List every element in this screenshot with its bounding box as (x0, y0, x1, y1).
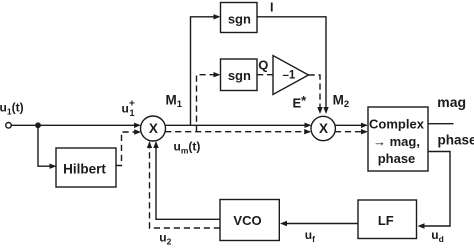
wire Hilbert to M1 dashed (116, 132, 135, 166)
Hilbert block (56, 148, 116, 187)
inverter amplifier -1 (273, 56, 309, 95)
svg-text:M1: M1 (166, 93, 183, 111)
svg-text:u1(t): u1(t) (0, 101, 24, 117)
svg-text:mag: mag (437, 94, 466, 110)
wire LF to VCO (286, 223, 358, 225)
label u1(t) (0, 101, 24, 117)
label u2 (159, 231, 171, 247)
svg-text:sgn: sgn (228, 68, 251, 83)
wire M1 to M2 real (166, 124, 307, 126)
svg-text:Complex: Complex (369, 117, 425, 132)
svg-text:uf: uf (305, 228, 315, 244)
wire tap to sgn1 (191, 17, 215, 126)
label M1 (166, 93, 183, 111)
svg-text:phase: phase (378, 151, 416, 166)
svg-text:LF: LF (378, 213, 394, 228)
svg-text:M2: M2 (333, 93, 350, 111)
sgn block 2 (221, 59, 258, 91)
node junction (35, 122, 41, 128)
input terminal (6, 123, 12, 129)
svg-text:–1: –1 (283, 70, 296, 82)
svg-text:VCO: VCO (233, 213, 261, 228)
label ud (431, 228, 444, 244)
svg-text:I: I (270, 0, 273, 14)
wire tap to sgn2 dashed (197, 75, 215, 132)
wire junction to Hilbert (38, 125, 50, 166)
wire phase output to LF (424, 152, 450, 227)
svg-text:ud: ud (431, 228, 444, 244)
wire M2 to Complex real (335, 124, 362, 126)
wire M2 to Complex imaginary dashed (335, 131, 362, 133)
sgn block 1 (221, 3, 258, 33)
svg-text:sgn: sgn (228, 11, 251, 26)
wire inverter to M2 dashed (309, 75, 321, 108)
wire sgn1 to M2 (257, 17, 326, 108)
svg-text:+: + (129, 99, 135, 110)
Complex block (368, 107, 428, 171)
Complex block label (369, 117, 425, 166)
label u1+ (122, 99, 136, 118)
wire mag output (428, 123, 454, 125)
svg-text:phase: phase (438, 132, 474, 147)
label um(t) (174, 140, 201, 156)
svg-text:E*: E* (293, 93, 308, 110)
VCO block (220, 200, 279, 241)
label uf (305, 228, 315, 244)
svg-text:u: u (122, 102, 129, 116)
svg-text:X: X (149, 121, 158, 136)
wire VCO to M1 imaginary dashed (150, 147, 221, 228)
svg-text:um(t): um(t) (174, 140, 201, 156)
wire VCO to M1 real (156, 147, 220, 219)
wire sgn2 to inverter dashed (257, 74, 273, 76)
wire M1 to M2 imaginary dashed (165, 131, 305, 133)
svg-text:Hilbert: Hilbert (63, 161, 106, 176)
svg-text:→ mag,: → mag, (373, 134, 420, 149)
svg-text:Q: Q (258, 57, 268, 72)
svg-text:X: X (319, 121, 328, 136)
wire input to M1 (12, 124, 137, 126)
multiplier M1 (141, 116, 166, 141)
multiplier M2 (311, 116, 335, 140)
svg-text:u2: u2 (159, 231, 171, 247)
label M2 (333, 93, 350, 111)
LF block (358, 200, 417, 239)
